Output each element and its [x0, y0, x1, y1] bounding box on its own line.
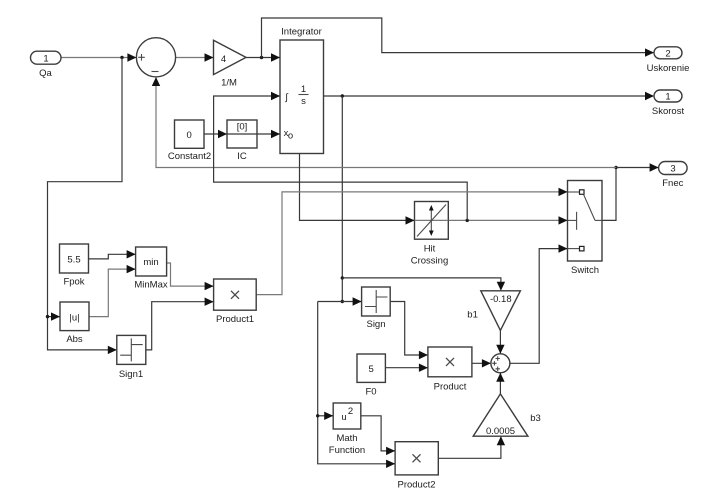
- arrowhead into Fnec: [650, 163, 659, 171]
- svg-text:1/M: 1/M: [221, 78, 237, 89]
- arrowhead into IC: [218, 130, 227, 138]
- svg-text:b3: b3: [530, 413, 541, 424]
- svg-text:Skorost: Skorost: [652, 106, 685, 117]
- svg-text:Sign: Sign: [366, 319, 385, 330]
- arrowhead into Sum minus: [152, 77, 160, 86]
- wire Integrator bottom to Hit Crossing: [300, 154, 415, 221]
- wire F0 to Product in2: [385, 367, 427, 369]
- arrowhead into Gain: [205, 53, 214, 61]
- constant Constant2: [168, 120, 211, 162]
- wire Gain to Integrator in1: [246, 57, 280, 59]
- gain 1/M: [214, 40, 247, 88]
- integrator U Integrator: [280, 27, 324, 154]
- sum block Sum: [136, 38, 175, 77]
- svg-text:Function: Function: [329, 445, 365, 456]
- junction at Sign input line: [341, 300, 344, 303]
- wire Integrator output branch down: [341, 96, 343, 302]
- wire feedback to Sum minus input: [156, 79, 616, 168]
- junction on Fnec line: [614, 166, 617, 169]
- wire Sum2 to Switch in3: [510, 249, 567, 364]
- wire IC to Integrator in3: [257, 133, 280, 135]
- wire b1 to Sum2 top: [499, 330, 501, 353]
- svg-text:0: 0: [187, 130, 192, 141]
- svg-text:Integrator: Integrator: [281, 27, 322, 38]
- svg-text:2: 2: [348, 406, 353, 417]
- wire down to Math Function and Product2: [318, 302, 395, 464]
- svg-text:2: 2: [665, 48, 670, 59]
- constant F0 value 5: [357, 354, 385, 398]
- arrowhead into Skorost: [645, 92, 654, 100]
- svg-text:Hit: Hit: [424, 244, 436, 255]
- wire branch to gain b1: [342, 278, 501, 290]
- svg-text:o: o: [288, 131, 293, 142]
- abs block Abs: [60, 302, 89, 345]
- initial condition block IC: [227, 120, 257, 162]
- arrowhead into Product1 in2: [205, 298, 214, 306]
- constant Fpok value 5.5: [60, 244, 89, 288]
- arrowhead into Switch in3: [559, 244, 568, 252]
- svg-text:1: 1: [665, 92, 670, 103]
- wire Qa branch down to Abs and Sign1: [48, 58, 123, 350]
- arrowhead into Hit Crossing: [406, 216, 415, 224]
- arrowhead into Product1 in1: [205, 282, 214, 290]
- svg-text:5: 5: [369, 364, 374, 375]
- junction on Integrator output: [341, 94, 344, 97]
- junction at Math Function input: [316, 414, 319, 417]
- junction at Abs input: [46, 315, 49, 318]
- arrowhead into Product in2: [419, 364, 428, 372]
- svg-text:-0.18: -0.18: [490, 294, 512, 305]
- svg-text:Product2: Product2: [397, 480, 435, 491]
- svg-text:u: u: [341, 412, 346, 423]
- output port 2 Uskorenie: [647, 47, 690, 74]
- arrowhead into Math Function: [324, 412, 333, 420]
- svg-text:Qa: Qa: [39, 68, 52, 79]
- arrowhead into Sum2 bottom: [496, 373, 504, 382]
- arrowhead into b3: [497, 436, 505, 445]
- svg-text:1: 1: [301, 84, 306, 95]
- output port 3 Fnec: [659, 162, 688, 190]
- wire Sign1 to Product1 in2: [146, 302, 213, 350]
- arrowhead into Product2 in2: [386, 460, 395, 468]
- arrowhead into Product2 in1: [386, 447, 395, 455]
- arrowhead into Sign1: [108, 346, 117, 354]
- svg-text:F0: F0: [365, 387, 376, 398]
- junction for b1 branch: [341, 276, 344, 279]
- svg-text:min: min: [143, 257, 158, 268]
- input port 1 Qa: [31, 51, 62, 79]
- arrowhead into Switch in2: [559, 216, 568, 224]
- arrowhead into b1: [497, 282, 505, 291]
- hit crossing block Hit Crossing: [411, 202, 449, 267]
- junction on Qa wire: [120, 56, 123, 59]
- product block Product: [428, 347, 472, 393]
- wire Sign output to Product in1: [390, 302, 427, 356]
- sign block Sign: [362, 287, 391, 330]
- arrowhead into Sum: [127, 53, 136, 61]
- wire Constant2 to IC: [204, 133, 227, 135]
- wire Switch output up to Fnec line: [602, 168, 616, 221]
- product block Product1: [214, 279, 257, 325]
- svg-text:Product: Product: [434, 382, 467, 393]
- wire Hit Crossing to Switch in2: [448, 219, 567, 221]
- wire Sum to Gain 1/M: [176, 57, 213, 59]
- wire MinMax to Product1 in1: [167, 263, 213, 286]
- arrowhead into Integrator in2: [271, 92, 280, 100]
- gain b3 value 0.0005: [473, 394, 541, 437]
- wire Math Function to Product2 in1: [361, 416, 395, 451]
- svg-text:Switch: Switch: [571, 265, 599, 276]
- wire Gain branch to Uskorenie port: [262, 18, 654, 58]
- arrowhead into Integrator in1: [271, 53, 280, 61]
- product block Product2: [395, 442, 438, 491]
- svg-text:[0]: [0]: [237, 122, 248, 133]
- svg-text:Product1: Product1: [216, 314, 254, 325]
- junction after Gain: [260, 56, 263, 59]
- arrowhead into Product in1: [419, 351, 428, 359]
- gain b1 value -0.18: [467, 291, 520, 331]
- svg-text:Fnec: Fnec: [662, 178, 683, 189]
- svg-text:Math: Math: [336, 433, 357, 444]
- svg-text:Uskorenie: Uskorenie: [647, 63, 690, 74]
- wire Product1 to Switch in1: [256, 192, 567, 295]
- wire Qa to Sum: [61, 57, 136, 59]
- svg-text:Constant2: Constant2: [168, 151, 211, 162]
- wire Product2 to b3: [438, 437, 501, 458]
- arrowhead into Uskorenie: [645, 48, 654, 56]
- svg-text:Fpok: Fpok: [63, 277, 84, 288]
- arrowhead into Sign: [353, 297, 362, 305]
- svg-text:IC: IC: [237, 151, 247, 162]
- arrowhead into Switch in1: [559, 188, 568, 196]
- svg-text:Crossing: Crossing: [411, 256, 449, 267]
- math function block u squared: [329, 403, 365, 456]
- junction after Hit Crossing: [466, 219, 469, 222]
- svg-text:b1: b1: [467, 310, 478, 321]
- arrowhead into Sum2 top: [496, 345, 504, 354]
- wire b3 to Sum2 bottom: [499, 374, 501, 394]
- svg-text:3: 3: [670, 164, 675, 175]
- svg-text:4: 4: [221, 54, 226, 65]
- svg-text:0.0005: 0.0005: [486, 426, 515, 437]
- output port 1 Skorost: [652, 90, 685, 117]
- wire branch to Integrator in2: [214, 96, 468, 220]
- svg-text:Abs: Abs: [66, 334, 83, 345]
- wire to Sign block: [318, 301, 361, 303]
- wire to Fnec port: [616, 167, 658, 169]
- sign block Sign1: [117, 335, 146, 380]
- arrowhead into MinMax in1: [127, 250, 136, 258]
- wire Product to Sum2: [472, 362, 490, 364]
- svg-text:Sign1: Sign1: [119, 369, 143, 380]
- wire Integrator output to Skorost port: [324, 95, 654, 97]
- svg-text:|u|: |u|: [69, 313, 79, 324]
- svg-text:5.5: 5.5: [67, 255, 80, 266]
- arrowhead into Abs: [51, 312, 60, 320]
- minmax block MinMax: [134, 247, 168, 291]
- wire Abs to MinMax in2: [89, 269, 135, 317]
- arrowhead into Integrator in3: [271, 130, 280, 138]
- arrowhead into MinMax in2: [127, 265, 136, 273]
- arrowhead into Sum2 left: [482, 359, 491, 367]
- wire Fpok to MinMax in1: [89, 254, 136, 259]
- switch block Switch: [568, 181, 603, 277]
- svg-text:s: s: [301, 96, 306, 107]
- sum block Sum2: [491, 354, 510, 373]
- svg-text:1: 1: [43, 53, 48, 64]
- svg-text:MinMax: MinMax: [134, 280, 168, 291]
